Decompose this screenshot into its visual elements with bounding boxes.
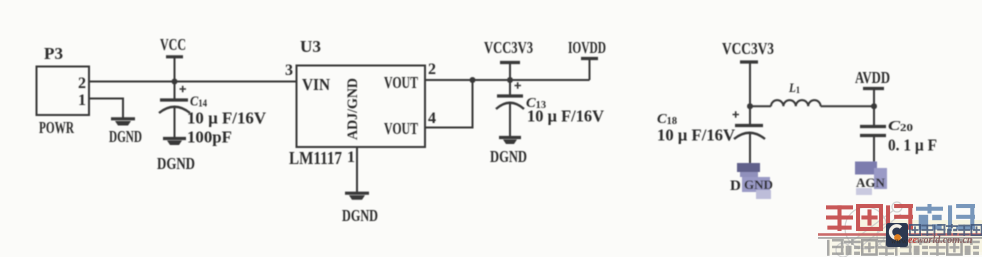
- power flag VCC: [160, 35, 186, 82]
- svg-text:DGND: DGND: [342, 206, 378, 225]
- svg-text:U3: U3: [300, 37, 321, 56]
- watermark highlight band: [858, 220, 982, 252]
- svg-text:VCC3V3: VCC3V3: [484, 38, 533, 57]
- ground DGND at C18 (selected/highlighted): [730, 163, 773, 199]
- svg-text:1: 1: [347, 149, 355, 166]
- svg-text:100pF: 100pF: [187, 128, 232, 147]
- svg-text:VCC3V3: VCC3V3: [722, 39, 774, 58]
- connector P3: [37, 44, 90, 137]
- ground DGND at U3 pin1: [342, 193, 378, 225]
- watermark text blue 培训: [916, 204, 975, 231]
- svg-text:D: D: [730, 178, 741, 194]
- svg-text:VOUT: VOUT: [384, 73, 418, 92]
- ground AGND at C20 (selected/highlighted): [855, 162, 887, 196]
- watermark text red 易迪拓: [826, 204, 913, 231]
- capacitor C18: [657, 111, 765, 163]
- junction node VCC3V3/L1/C18: [747, 103, 753, 109]
- junction node VCC: [172, 79, 178, 85]
- svg-text:IOVDD: IOVDD: [568, 38, 606, 57]
- regulator U3 LM1117: [285, 37, 436, 168]
- svg-text:VCC: VCC: [160, 35, 186, 54]
- svg-text:ADJ/GND: ADJ/GND: [345, 78, 361, 140]
- svg-text:3: 3: [285, 62, 293, 79]
- svg-text:GND: GND: [744, 177, 773, 192]
- svg-text:POWR: POWR: [39, 118, 75, 137]
- watermark text navy 电子工程世界: [910, 224, 982, 236]
- inductor L1: [750, 80, 821, 106]
- svg-text:eeworld.com.cn: eeworld.com.cn: [908, 235, 973, 246]
- svg-text:DGND: DGND: [490, 147, 527, 166]
- power flag AVDD: [855, 68, 890, 106]
- junction node AVDD/C20: [871, 103, 877, 109]
- svg-text:VIN: VIN: [302, 75, 330, 94]
- wire U3 VOUT pin4 loop: [425, 80, 473, 128]
- svg-text:DGND: DGND: [109, 127, 142, 146]
- svg-text:10 µ F/16V: 10 µ F/16V: [187, 109, 266, 128]
- svg-text:4: 4: [428, 110, 436, 127]
- watermark logo sketch circles: [836, 202, 903, 257]
- capacitor C14: [159, 82, 266, 147]
- wire P3 pin2 to U3 VIN: [89, 81, 296, 83]
- wire P3 pin1 to ground: [89, 99, 123, 118]
- svg-text:DGND: DGND: [157, 154, 195, 173]
- svg-text:2: 2: [428, 61, 436, 78]
- ground DGND at C13: [490, 138, 527, 167]
- svg-text:AVDD: AVDD: [855, 68, 890, 87]
- svg-text:10 µ F/16V: 10 µ F/16V: [527, 107, 604, 126]
- wire U3 pin1 to ground: [356, 147, 358, 192]
- svg-text:0. 1 µ F: 0. 1 µ F: [888, 136, 937, 155]
- svg-text:AGN: AGN: [856, 175, 886, 190]
- watermark underline gray: [818, 237, 982, 239]
- svg-text:P3: P3: [44, 44, 63, 63]
- capacitor C13: [496, 80, 604, 136]
- svg-text:1: 1: [78, 92, 86, 109]
- svg-text:www.: www.: [891, 237, 908, 246]
- watermark eeworld logo: [886, 223, 908, 247]
- watermark text gray 射频和天线设计专家: [827, 239, 980, 256]
- svg-text:VOUT: VOUT: [384, 119, 418, 138]
- ground DGND at C14: [157, 139, 195, 174]
- capacitor C20: [860, 106, 937, 162]
- power flag VCC3V3 (analog section): [722, 39, 774, 125]
- junction node VCC3V3/C13: [507, 77, 513, 83]
- wire U3 VOUT pin2 to IOVDD: [425, 79, 590, 81]
- wire L1 to AVDD node: [821, 105, 874, 107]
- ground DGND at P3 pin1: [109, 119, 142, 146]
- watermark underline red: [818, 233, 982, 236]
- junction node VOUT: [470, 77, 476, 83]
- svg-text:10 µ F/16V: 10 µ F/16V: [657, 126, 735, 145]
- svg-text:LM1117: LM1117: [289, 148, 342, 168]
- power flag VCC3V3: [484, 38, 533, 80]
- svg-text:2: 2: [78, 75, 86, 92]
- power flag IOVDD: [568, 38, 606, 80]
